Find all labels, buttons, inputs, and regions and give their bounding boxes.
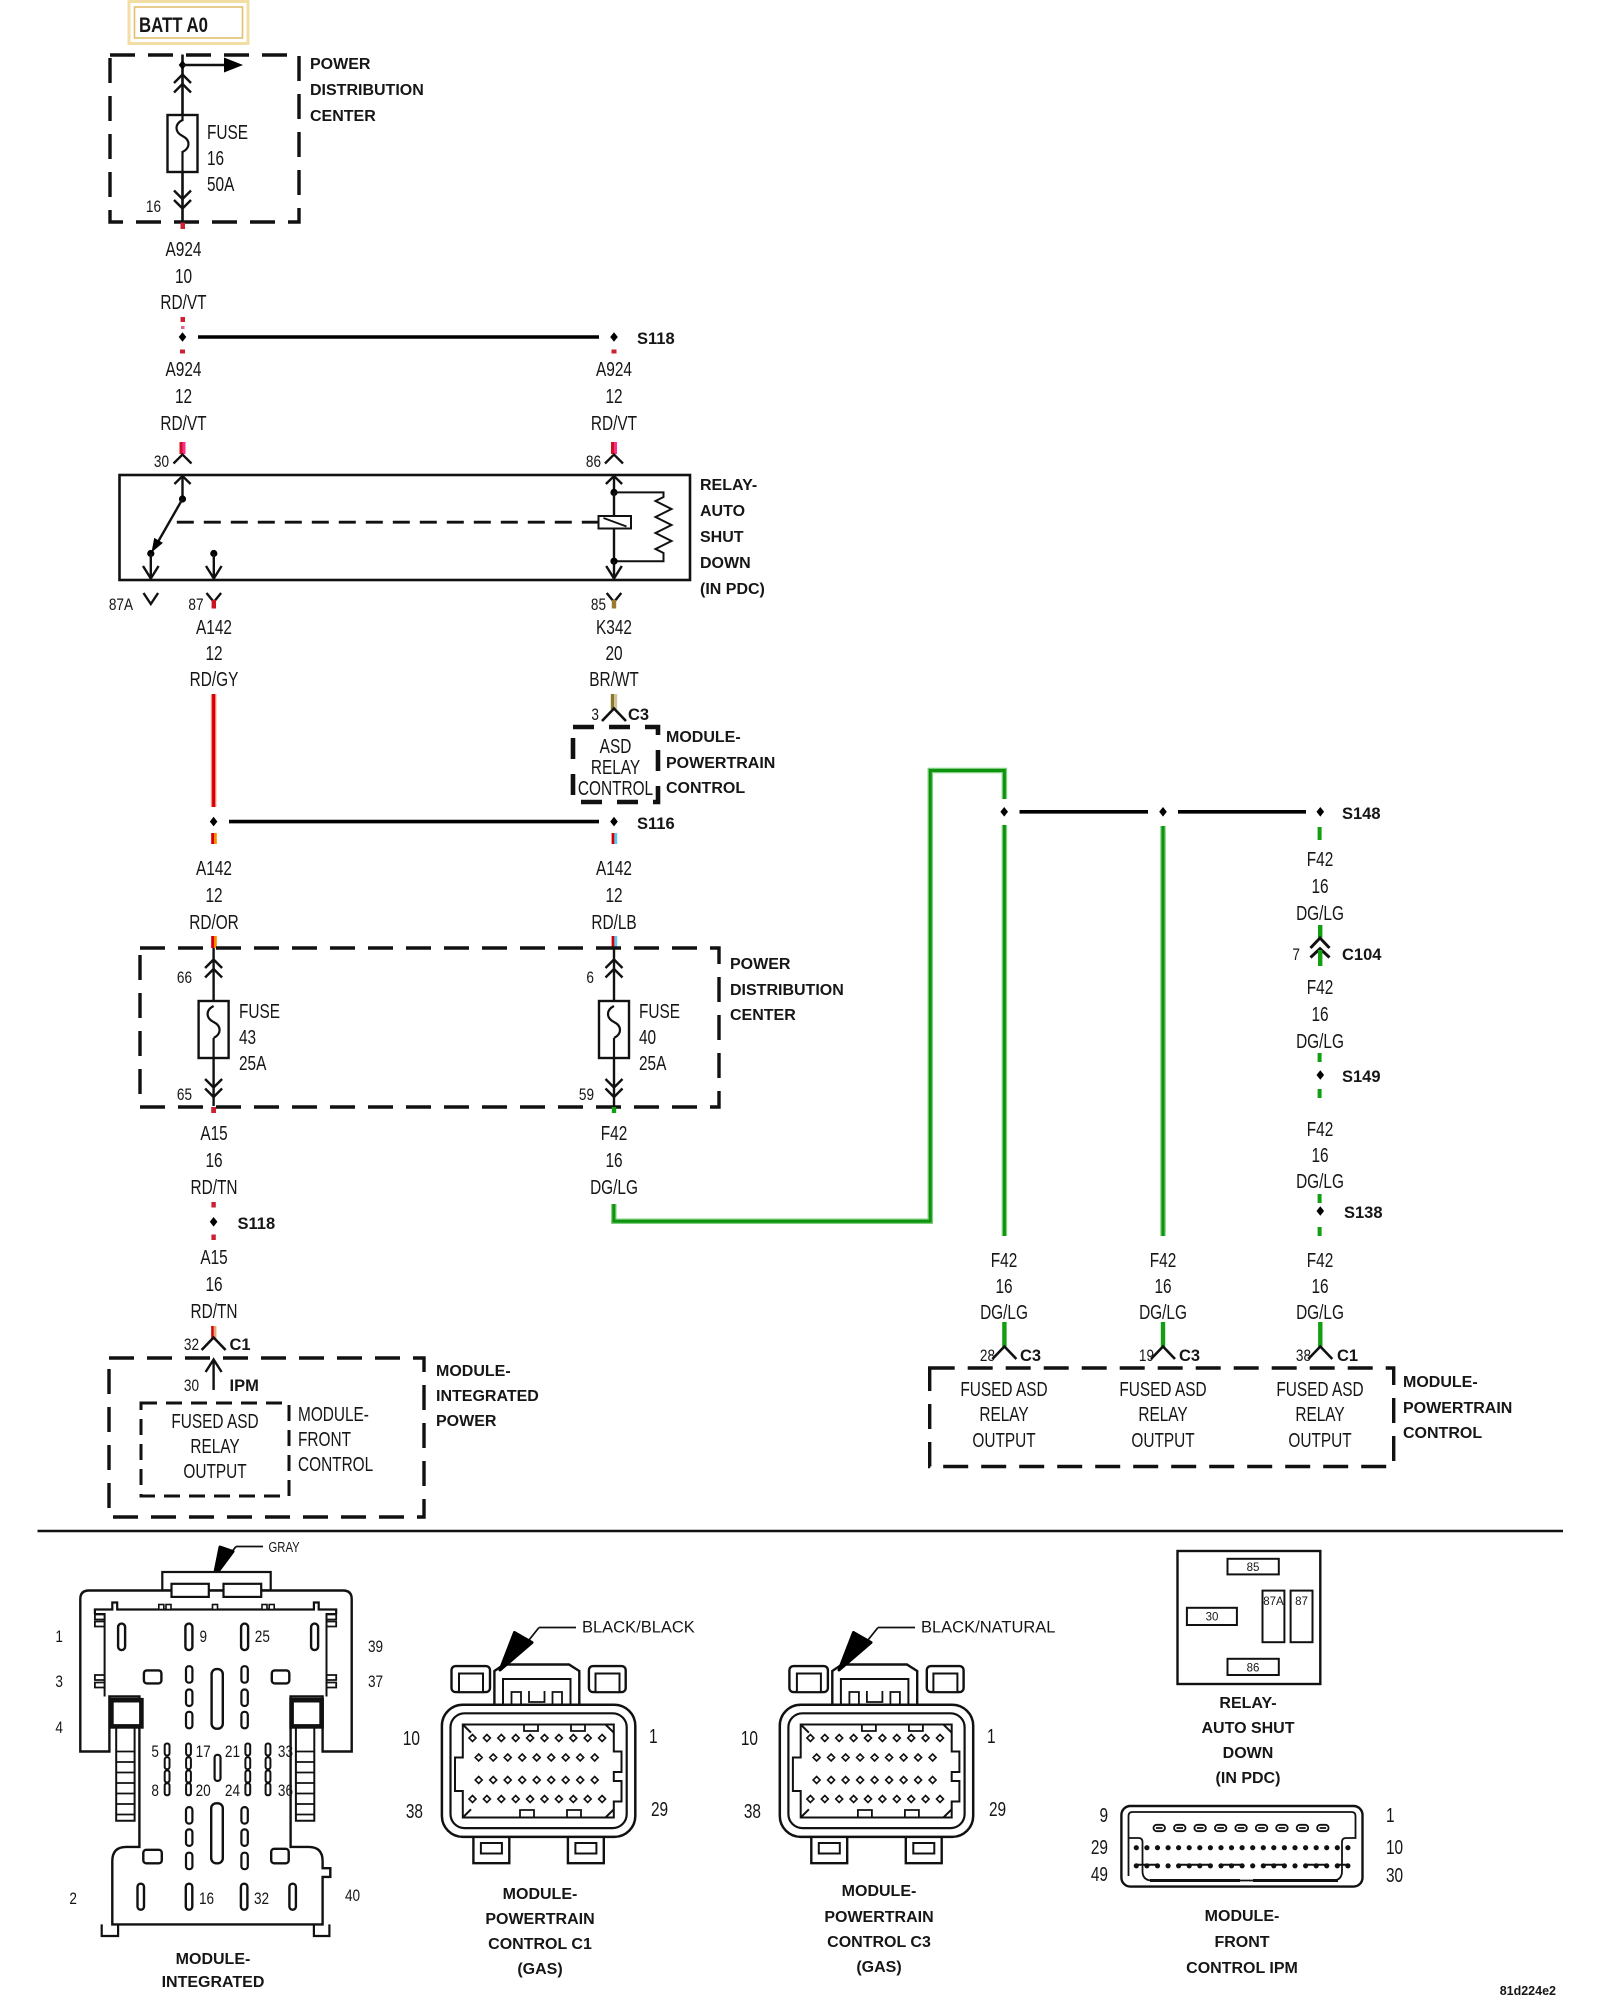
svg-text:C104: C104 (1342, 946, 1382, 964)
pin 30 IPM internal arrow (184, 1360, 259, 1396)
wire DG/LG S148 down to PCM C3 pin 19 (1160, 826, 1166, 1236)
svg-text:S118: S118 (637, 330, 675, 348)
relay coil (599, 516, 632, 529)
svg-text:A15: A15 (200, 1246, 227, 1268)
fuse 43 25A (199, 1000, 281, 1074)
svg-text:12: 12 (605, 884, 622, 906)
svg-text:DOWN: DOWN (1223, 1745, 1274, 1762)
relay switch armature (152, 499, 183, 553)
svg-text:FUSE: FUSE (207, 121, 248, 143)
fuse 40 25A (599, 1000, 680, 1074)
svg-text:MODULE-: MODULE- (666, 729, 741, 746)
svg-text:7: 7 (1292, 946, 1300, 965)
pin 30 connector symbol (154, 453, 192, 472)
svg-text:F42: F42 (1307, 976, 1334, 998)
pin 86 connector symbol (586, 453, 623, 472)
svg-text:MODULE-: MODULE- (1403, 1374, 1478, 1391)
svg-text:16: 16 (605, 1149, 622, 1171)
wire label K342 20 BR/WT (589, 616, 639, 690)
svg-text:33: 33 (278, 1743, 293, 1762)
svg-text:DG/LG: DG/LG (590, 1176, 638, 1198)
svg-text:POWERTRAIN: POWERTRAIN (485, 1911, 594, 1928)
connector PCM C3 (780, 1665, 973, 1864)
svg-text:BR/WT: BR/WT (589, 668, 639, 690)
svg-text:12: 12 (205, 642, 222, 664)
svg-text:9: 9 (1099, 1804, 1108, 1826)
svg-text:10: 10 (741, 1727, 758, 1749)
svg-text:RELAY: RELAY (591, 756, 640, 778)
svg-text:POWER: POWER (730, 956, 791, 973)
svg-text:37: 37 (368, 1673, 383, 1692)
wire DG/LG S148 down to PCM C3 pin 28 (1002, 825, 1008, 1236)
svg-text:MODULE-: MODULE- (436, 1363, 511, 1380)
splice S138 (1317, 1204, 1383, 1222)
BLACK/NATURAL callout (839, 1619, 1055, 1671)
svg-text:IPM: IPM (230, 1377, 259, 1395)
svg-text:17: 17 (196, 1743, 211, 1762)
svg-text:16: 16 (995, 1275, 1012, 1297)
svg-text:F42: F42 (1150, 1249, 1177, 1271)
svg-text:BATT A0: BATT A0 (139, 14, 208, 37)
wire stub to pin 38 (1318, 1322, 1322, 1347)
svg-text:40: 40 (345, 1887, 360, 1906)
power distribution center box 1 (110, 55, 424, 222)
svg-text:87: 87 (1295, 1596, 1308, 1608)
svg-text:1: 1 (55, 1628, 63, 1647)
wire label F42 16 DG/LG (column 1) (980, 1249, 1028, 1323)
wire label F42 16 DG/LG (fuse 40 output) (590, 1122, 638, 1198)
svg-text:RD/LB: RD/LB (591, 911, 636, 933)
svg-text:RELAY: RELAY (190, 1435, 239, 1457)
svg-text:6: 6 (586, 969, 594, 988)
svg-text:RELAY: RELAY (979, 1403, 1028, 1425)
wire label F42 16 DG/LG (column 2) (1139, 1249, 1187, 1323)
wire dash above S138 (1318, 1194, 1322, 1203)
wire dash DG/LG below S148 right (1318, 827, 1322, 840)
svg-text:CONTROL C1: CONTROL C1 (488, 1936, 592, 1953)
svg-text:3: 3 (55, 1673, 63, 1692)
wire battery feed into PDC (181, 55, 184, 116)
svg-text:38: 38 (406, 1800, 423, 1822)
power distribution center box 2 (140, 948, 844, 1107)
svg-text:MODULE-: MODULE- (298, 1403, 369, 1425)
node feed junction with arrow to other circuits (179, 58, 243, 73)
svg-text:MODULE-: MODULE- (503, 1886, 578, 1903)
connector IPM bottom dot row (1134, 1863, 1351, 1868)
connector C104 pin 7 (1292, 925, 1382, 966)
svg-text:FUSED ASD: FUSED ASD (960, 1378, 1047, 1400)
svg-text:38: 38 (744, 1800, 761, 1822)
svg-text:50A: 50A (207, 173, 234, 195)
svg-text:32: 32 (184, 1336, 199, 1355)
splice S118 (179, 330, 675, 348)
svg-text:CENTER: CENTER (730, 1007, 796, 1024)
wire stub RD/TN below PDC box 2 (211, 1107, 216, 1113)
svg-text:43: 43 (239, 1026, 256, 1048)
svg-text:RD/VT: RD/VT (591, 412, 637, 434)
wire label A142 12 RD/GY (190, 616, 239, 690)
svg-text:20: 20 (605, 642, 622, 664)
wire fuse output to PDC edge (181, 172, 184, 221)
wire stub below S116 left (RD/OR) (211, 833, 217, 844)
svg-text:29: 29 (989, 1798, 1006, 1820)
svg-text:AUTO: AUTO (700, 503, 745, 520)
connector MODULE-INTEGRATED middle pin cluster (151, 1743, 293, 1801)
svg-text:C1: C1 (1337, 1347, 1358, 1365)
connector MODULE-INTEGRATED body (80, 1572, 351, 1924)
label MODULE-FRONT CONTROL IPM (1186, 1908, 1298, 1977)
svg-text:30: 30 (1206, 1612, 1219, 1624)
svg-text:30: 30 (184, 1377, 199, 1396)
svg-text:POWER: POWER (436, 1413, 497, 1430)
svg-text:29: 29 (651, 1798, 668, 1820)
relay pin 86 internal arrow (606, 476, 622, 516)
svg-text:CONTROL: CONTROL (1403, 1425, 1482, 1442)
svg-text:8: 8 (151, 1782, 159, 1801)
svg-text:19: 19 (1139, 1347, 1154, 1366)
pin 59 connector symbol (579, 1058, 623, 1106)
label MODULE-POWERTRAIN CONTROL C3 (GAS) (824, 1883, 933, 1976)
svg-text:C3: C3 (628, 706, 649, 724)
pin 66 connector symbol (177, 948, 222, 1001)
module powertrain control fused ASD relay output box (930, 1368, 1394, 1467)
wire label A15 16 RD/TN (above S118) (191, 1122, 238, 1198)
svg-text:SHUT: SHUT (700, 529, 744, 546)
svg-text:87A: 87A (109, 596, 134, 615)
svg-text:POWER: POWER (310, 56, 371, 73)
wire label F42 16 DG/LG (below C104) (1296, 976, 1344, 1052)
svg-text:12: 12 (175, 385, 192, 407)
svg-text:66: 66 (177, 969, 192, 988)
svg-text:DG/LG: DG/LG (1296, 902, 1344, 924)
svg-text:16: 16 (1311, 1275, 1328, 1297)
fuse 16 50A (168, 115, 249, 195)
svg-text:OUTPUT: OUTPUT (972, 1429, 1035, 1451)
svg-text:POWERTRAIN: POWERTRAIN (1403, 1400, 1512, 1417)
label MODULE-INTEGRATED (162, 1951, 265, 1991)
pin 87A connector symbol below relay (109, 593, 158, 614)
svg-text:A142: A142 (196, 616, 232, 638)
svg-text:38: 38 (1296, 1347, 1311, 1366)
svg-text:10: 10 (175, 265, 192, 287)
svg-text:DISTRIBUTION: DISTRIBUTION (730, 982, 844, 999)
connector MODULE-INTEGRATED lower pin cluster (143, 1803, 288, 1869)
svg-text:A142: A142 (596, 857, 632, 879)
svg-text:DG/LG: DG/LG (1139, 1301, 1187, 1323)
svg-text:C3: C3 (1179, 1347, 1200, 1365)
svg-text:12: 12 (205, 884, 222, 906)
svg-text:INTEGRATED: INTEGRATED (162, 1974, 265, 1991)
svg-text:RD/OR: RD/OR (189, 911, 239, 933)
connector MODULE-FRONT CONTROL IPM (1121, 1806, 1362, 1887)
wire stub marks above splice S118 (181, 317, 186, 329)
svg-text:(IN PDC): (IN PDC) (1216, 1770, 1281, 1787)
svg-text:20: 20 (196, 1782, 211, 1801)
svg-text:24: 24 (225, 1782, 241, 1801)
connector PCM C3 pin labels (741, 1725, 1006, 1822)
svg-text:F42: F42 (991, 1249, 1018, 1271)
svg-text:S149: S149 (1342, 1068, 1381, 1086)
svg-text:POWERTRAIN: POWERTRAIN (666, 755, 775, 772)
wire stub to pin 19 (1161, 1322, 1165, 1347)
svg-text:16: 16 (1311, 875, 1328, 897)
connector MODULE-INTEGRATED inner outline (95, 1603, 336, 1697)
svg-text:AUTO SHUT: AUTO SHUT (1201, 1720, 1294, 1737)
svg-text:28: 28 (980, 1347, 995, 1366)
connector symbol at PDC feed (double chevron) (174, 75, 191, 93)
svg-text:MODULE-: MODULE- (176, 1951, 251, 1968)
svg-text:16: 16 (1311, 1144, 1328, 1166)
svg-text:DISTRIBUTION: DISTRIBUTION (310, 82, 424, 99)
svg-text:FUSE: FUSE (639, 1000, 680, 1022)
wire dash below S138 (1318, 1227, 1322, 1236)
module front control label (298, 1403, 373, 1475)
svg-text:49: 49 (1091, 1863, 1108, 1885)
svg-text:(IN PDC): (IN PDC) (700, 581, 765, 598)
svg-text:A924: A924 (166, 238, 202, 260)
wire label A924 12 RD/VT (right) (591, 358, 637, 434)
svg-text:25: 25 (255, 1628, 270, 1647)
svg-text:FUSED ASD: FUSED ASD (1119, 1378, 1206, 1400)
svg-text:25A: 25A (239, 1052, 266, 1074)
svg-text:86: 86 (586, 453, 601, 472)
svg-text:29: 29 (1091, 1836, 1108, 1858)
svg-text:5: 5 (151, 1743, 159, 1762)
svg-text:F42: F42 (1307, 848, 1334, 870)
svg-text:INTEGRATED: INTEGRATED (436, 1388, 539, 1405)
svg-text:CONTROL: CONTROL (578, 777, 653, 799)
svg-text:40: 40 (639, 1026, 656, 1048)
svg-text:OUTPUT: OUTPUT (1131, 1429, 1194, 1451)
wire stub RD/VT at relay pin 86 (611, 442, 617, 454)
svg-text:RD/TN: RD/TN (191, 1300, 238, 1322)
svg-text:RD/TN: RD/TN (191, 1176, 238, 1198)
svg-text:RELAY-: RELAY- (1219, 1695, 1276, 1712)
svg-text:CONTROL: CONTROL (298, 1453, 373, 1475)
svg-text:16: 16 (207, 147, 224, 169)
svg-text:39: 39 (368, 1638, 383, 1657)
pin 6 connector symbol (586, 948, 622, 1001)
wire stub RD/TN at IPM C1 pin 32 (211, 1326, 216, 1339)
svg-text:85: 85 (1247, 1562, 1260, 1574)
svg-text:1: 1 (649, 1725, 658, 1747)
pin 3 C3 connector symbol (591, 706, 649, 725)
relay auto shut down box (120, 475, 765, 598)
svg-text:16: 16 (205, 1149, 222, 1171)
relay mechanical dashed link (177, 521, 599, 524)
module powertrain control label (bottom right) (1403, 1374, 1512, 1442)
svg-text:C1: C1 (230, 1336, 251, 1354)
wire stub RD/VT at relay pin 30 (180, 442, 186, 454)
connector MODULE-INTEGRATED feet (102, 1924, 330, 1936)
svg-text:POWERTRAIN: POWERTRAIN (824, 1909, 933, 1926)
wire DG/LG from fuse 40 routed right and up to S148 (614, 771, 1005, 1222)
connector IPM oval pin row (1154, 1825, 1329, 1831)
relay pin 87 contact and arrow (206, 550, 222, 579)
svg-text:10: 10 (1386, 1836, 1403, 1858)
svg-text:12: 12 (605, 385, 622, 407)
connector PCM C1 (442, 1665, 635, 1864)
svg-text:F42: F42 (1307, 1118, 1334, 1140)
connector PCM C1 pin diamonds (469, 1735, 606, 1803)
svg-text:CENTER: CENTER (310, 108, 376, 125)
pin 28 C3 connector symbol (980, 1347, 1041, 1366)
wire label A924 10 RD/VT (160, 238, 206, 313)
wire label A924 12 RD/VT (left) (160, 358, 206, 434)
splice S118-2 (210, 1215, 275, 1233)
wire stub DG/LG below PDC box 2 (612, 1107, 616, 1113)
wire stub RD below PDC box (181, 223, 186, 230)
wire label F42 16 DG/LG (above C104) (1296, 848, 1344, 924)
svg-text:2: 2 (69, 1890, 77, 1909)
pin 16 exit connector symbol (146, 191, 191, 217)
pin 38 C1 connector symbol (1296, 1347, 1358, 1366)
module powertrain control ASD relay control box (573, 727, 775, 802)
connector MODULE-INTEGRATED bottom pin row (69, 1884, 360, 1910)
label RELAY-AUTO SHUT DOWN (IN PDC) (1201, 1695, 1294, 1787)
pin 65 connector symbol (177, 1058, 222, 1106)
svg-text:(GAS): (GAS) (856, 1959, 901, 1976)
relay internal resistor (614, 492, 672, 561)
svg-text:4: 4 (55, 1719, 63, 1738)
svg-text:CONTROL IPM: CONTROL IPM (1186, 1960, 1298, 1977)
fused ASD relay output box (front control module) (141, 1403, 289, 1496)
svg-text:S118: S118 (238, 1215, 276, 1233)
svg-text:FRONT: FRONT (298, 1428, 351, 1450)
relay pin 87A contact and arrow (143, 550, 159, 579)
relay pinout RELAY-AUTO SHUT DOWN (1178, 1551, 1321, 1684)
svg-text:59: 59 (579, 1086, 594, 1105)
svg-text:87A: 87A (1263, 1596, 1284, 1608)
svg-text:86: 86 (1247, 1663, 1260, 1675)
svg-text:DG/LG: DG/LG (1296, 1301, 1344, 1323)
svg-text:1: 1 (987, 1725, 996, 1747)
svg-text:K342: K342 (596, 616, 632, 638)
connector IPM middle dot row (1134, 1845, 1351, 1850)
wire label F42 16 DG/LG (above S138) (1296, 1118, 1344, 1192)
svg-text:FUSE: FUSE (239, 1000, 280, 1022)
svg-text:3: 3 (591, 706, 599, 725)
relay pin 85 contact and arrow (606, 529, 622, 579)
svg-text:85: 85 (591, 596, 606, 615)
svg-text:OUTPUT: OUTPUT (183, 1460, 246, 1482)
svg-text:S148: S148 (1342, 805, 1381, 823)
svg-text:CONTROL: CONTROL (666, 780, 745, 797)
svg-text:(GAS): (GAS) (517, 1961, 562, 1978)
svg-text:16: 16 (205, 1273, 222, 1295)
wire label F42 16 DG/LG (column 3) (1296, 1249, 1344, 1323)
svg-text:21: 21 (225, 1743, 240, 1762)
wire stub RD/LB above PDC box 2 (612, 936, 618, 948)
svg-text:FUSED ASD: FUSED ASD (1276, 1378, 1363, 1400)
relay pin 30 internal arrow (174, 476, 190, 503)
svg-text:1: 1 (1386, 1804, 1395, 1826)
wire stub below splice S118-2 (211, 1235, 215, 1241)
svg-text:F42: F42 (601, 1122, 628, 1144)
svg-text:87: 87 (188, 596, 203, 615)
svg-text:OUTPUT: OUTPUT (1288, 1429, 1351, 1451)
splice S149 (1317, 1068, 1381, 1086)
wire label A142 12 RD/LB (591, 857, 636, 933)
svg-text:81d224e2: 81d224e2 (1500, 1984, 1556, 1998)
separator line (38, 1530, 1564, 1533)
svg-text:32: 32 (254, 1890, 269, 1909)
svg-text:16: 16 (146, 198, 161, 217)
wire stub BR/WT to PCM C3 pin 3 (611, 694, 617, 709)
module integrated power box (109, 1358, 539, 1517)
svg-text:DG/LG: DG/LG (1296, 1030, 1344, 1052)
svg-text:RELAY: RELAY (1138, 1403, 1187, 1425)
svg-text:RELAY: RELAY (1295, 1403, 1344, 1425)
svg-text:16: 16 (1311, 1003, 1328, 1025)
svg-text:CONTROL C3: CONTROL C3 (827, 1934, 931, 1951)
svg-text:MODULE-: MODULE- (1205, 1908, 1280, 1925)
svg-text:25A: 25A (639, 1052, 666, 1074)
pin 87 connector symbol below relay (188, 593, 221, 614)
svg-text:FRONT: FRONT (1214, 1934, 1269, 1951)
svg-text:S138: S138 (1344, 1204, 1383, 1222)
pin 32 C1 connector symbol (184, 1336, 251, 1355)
svg-text:C3: C3 (1020, 1347, 1041, 1365)
GRAY callout for integrated module connector (214, 1539, 300, 1577)
pin 19 C3 connector symbol (1139, 1347, 1200, 1366)
drawing number 81d224e2 (1500, 1984, 1556, 1998)
svg-text:RD/GY: RD/GY (190, 668, 239, 690)
svg-text:F42: F42 (1307, 1249, 1334, 1271)
svg-text:BLACK/NATURAL: BLACK/NATURAL (921, 1619, 1055, 1637)
svg-text:A15: A15 (200, 1122, 227, 1144)
wire dash below S149 (1318, 1089, 1322, 1098)
svg-text:16: 16 (199, 1890, 214, 1909)
wire stub marks below splice S118 (180, 350, 617, 354)
svg-text:BLACK/BLACK: BLACK/BLACK (582, 1619, 695, 1637)
svg-text:30: 30 (154, 453, 169, 472)
BLACK/BLACK callout (500, 1619, 695, 1671)
svg-text:A142: A142 (196, 857, 232, 879)
svg-text:A924: A924 (596, 358, 632, 380)
svg-text:MODULE-: MODULE- (842, 1883, 917, 1900)
svg-text:36: 36 (278, 1782, 293, 1801)
label MODULE-POWERTRAIN CONTROL C1 (GAS) (485, 1886, 594, 1978)
svg-text:RD/VT: RD/VT (160, 291, 206, 313)
splice S116 (210, 815, 675, 833)
connector MODULE-INTEGRATED pin slots rows 2-3 (55, 1666, 383, 1737)
svg-text:DG/LG: DG/LG (980, 1301, 1028, 1323)
connector IPM pin labels (1091, 1804, 1403, 1886)
svg-text:30: 30 (1386, 1864, 1403, 1886)
svg-text:S116: S116 (637, 815, 675, 833)
wire dash above S149 (1318, 1053, 1322, 1062)
svg-text:16: 16 (1154, 1275, 1171, 1297)
svg-text:ASD: ASD (600, 735, 632, 757)
svg-text:A924: A924 (166, 358, 202, 380)
svg-text:10: 10 (403, 1727, 420, 1749)
svg-text:65: 65 (177, 1086, 192, 1105)
connector MODULE-INTEGRATED lock squares and ladders (111, 1700, 321, 1821)
svg-text:GRAY: GRAY (269, 1539, 300, 1556)
svg-text:FUSED ASD: FUSED ASD (171, 1410, 258, 1432)
connector PCM C1 pin labels (403, 1725, 668, 1822)
svg-text:RELAY-: RELAY- (700, 477, 757, 494)
wire stub to pin 28 (1002, 1322, 1006, 1347)
svg-text:DG/LG: DG/LG (1296, 1170, 1344, 1192)
connector MODULE-INTEGRATED pin slots row 1 (55, 1624, 383, 1657)
wire label A142 12 RD/OR (189, 857, 239, 933)
wire label A15 16 RD/TN (below S118) (191, 1246, 238, 1322)
splice S148 (1000, 805, 1380, 823)
wire stub below S116 right (RD/LB) (612, 833, 618, 844)
wire RD/GY from relay 87 down to splice S116 (211, 694, 217, 807)
